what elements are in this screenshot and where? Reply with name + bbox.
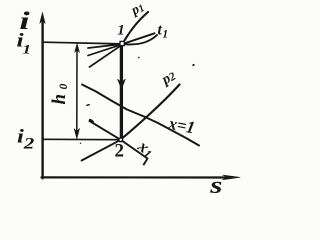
y-axis (i axis)	[41, 20, 43, 178]
enthalpy level line i2	[44, 138, 119, 140]
blob at start of fan line A	[88, 118, 94, 123]
scan speck 1	[192, 64, 194, 66]
process line 1-2 (isentrope, thick)	[120, 46, 123, 139]
isotherm t1 (through point 1, to the right)	[123, 33, 155, 44]
saturation line x=1	[82, 85, 199, 146]
h0 bottom arrowhead	[74, 129, 79, 139]
svg-text:2: 2	[115, 141, 125, 162]
scan speck 2	[86, 104, 90, 107]
state point 2 (open circle)	[119, 138, 123, 142]
quality line x1 (down-right of point 2, with end hook)	[121, 140, 148, 165]
scan speck 3	[138, 57, 140, 59]
fan line c (down-left of point 1)	[90, 44, 123, 67]
fan line B (down-left of point 2)	[82, 140, 121, 161]
enthalpy level line i1	[44, 42, 122, 44]
scan speck 4	[80, 143, 81, 144]
state point 1 (open square)	[120, 41, 124, 45]
isobar p1 (through point 1, up-right)	[123, 12, 149, 44]
h0 dimension line	[76, 50, 78, 132]
fan line b (down-left of point 1)	[88, 44, 123, 55]
y-axis arrowhead	[40, 13, 45, 24]
x-axis arrowhead	[223, 175, 241, 180]
arrowhead on process line (pointing down)	[117, 79, 125, 89]
isobar p2 (through point 2, up-right)	[121, 85, 180, 140]
svg-text:1: 1	[117, 23, 125, 39]
svg-text:s: s	[209, 172, 222, 195]
fan line a (down-left of point 1)	[88, 44, 123, 48]
fan line A (up-left of point 2)	[90, 121, 121, 140]
x-axis (s axis)	[42, 176, 229, 178]
h0 top arrowhead	[75, 44, 80, 53]
isotherm t1 companion curve	[123, 35, 158, 44]
